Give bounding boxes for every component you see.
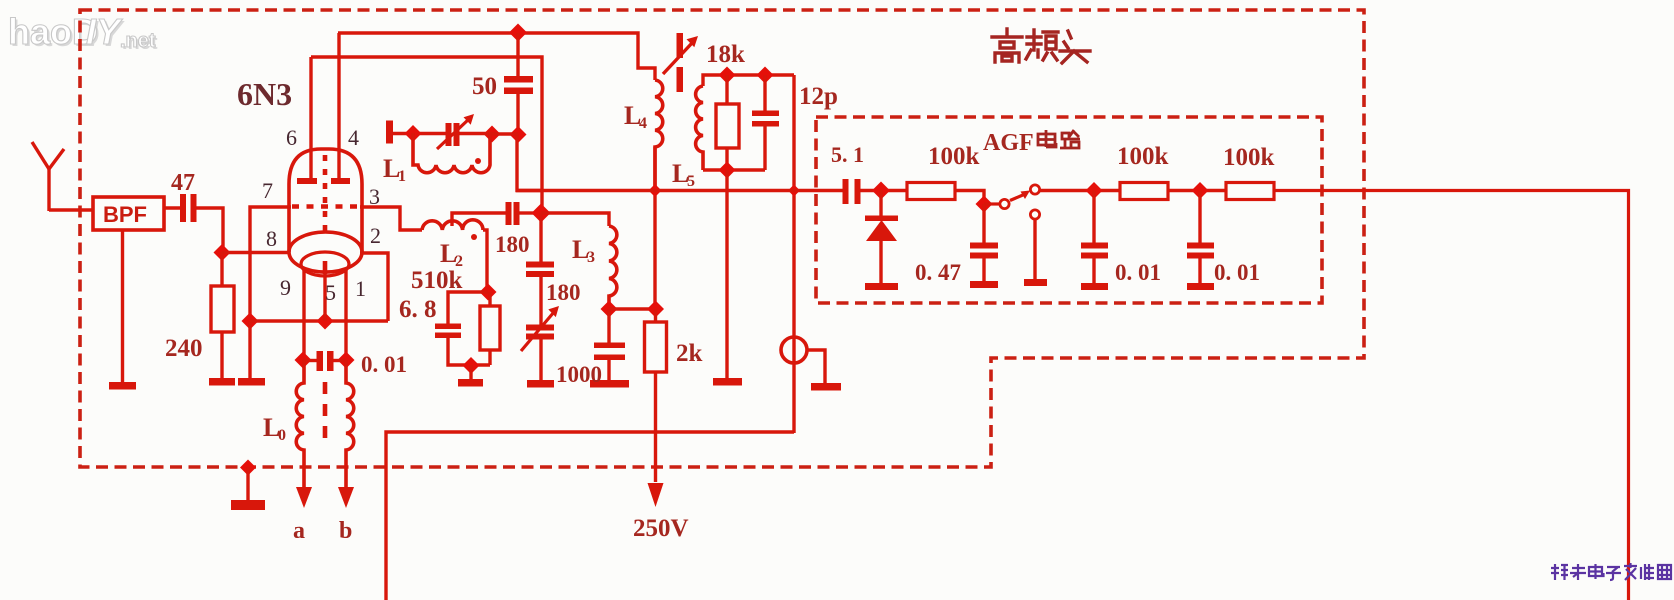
inductor L5 — [696, 86, 703, 170]
wire tank bottom rail — [703, 168, 765, 171]
AGF dashed box — [816, 117, 1322, 303]
node tank bottom — [719, 162, 736, 179]
watermark 精华电子文摘网 — [1551, 563, 1671, 580]
wire pin9 down — [302, 268, 305, 360]
wire BPF to C 47 — [164, 206, 181, 209]
wire node to cap 6.8 — [448, 292, 488, 324]
ground of 0.01 second — [1187, 283, 1214, 290]
svg-text:.net: .net — [120, 30, 156, 52]
ground of diode — [865, 283, 898, 290]
capacitor 6.8 — [435, 324, 461, 339]
svg-text:5: 5 — [325, 280, 336, 305]
ground of 510k — [458, 365, 483, 387]
inductor L0 primary — [296, 360, 304, 488]
svg-text:100k: 100k — [1117, 143, 1169, 170]
label AGF电路 — [983, 130, 1080, 156]
resistor 18k — [716, 75, 739, 170]
svg-text:6N3: 6N3 — [237, 76, 292, 112]
node top rail / 50 cap — [509, 24, 527, 42]
node L0 left — [295, 352, 312, 369]
node switch common — [976, 196, 993, 213]
svg-text:3: 3 — [369, 184, 380, 209]
wire varcap to L1 right node — [460, 132, 493, 135]
L4 adjustable core bar — [677, 33, 684, 92]
wire res2 to node3 — [1168, 189, 1226, 192]
wire node down to main line — [517, 134, 541, 191]
capacitor 180 variable — [521, 277, 559, 351]
label 高频头 — [992, 29, 1090, 63]
node L0 right — [338, 352, 355, 369]
node pin7/ground rail — [242, 313, 259, 330]
svg-text:AGF: AGF — [983, 130, 1034, 156]
wire node to L3 — [541, 213, 609, 226]
node second 0.01 — [1192, 182, 1209, 199]
node pin5 on rail — [317, 313, 334, 330]
L1 left terminal bar — [386, 121, 393, 144]
svg-text:5. 1: 5. 1 — [831, 142, 864, 167]
svg-text:6. 8: 6. 8 — [399, 296, 437, 323]
resistor 100k second — [1120, 183, 1168, 200]
resistor 100k first — [907, 183, 955, 200]
wire C47 to grid node — [196, 208, 223, 252]
ground of 240 — [209, 378, 235, 386]
inductor L3 — [609, 226, 617, 309]
wire cap to diode node — [860, 189, 907, 192]
wire L4 bottom through main line to node — [653, 147, 656, 310]
node 510k top — [480, 284, 497, 301]
svg-text:100k: 100k — [928, 143, 980, 170]
feedthrough circle — [781, 337, 807, 363]
resistor 2k — [645, 309, 667, 482]
inductor L2 — [422, 220, 483, 230]
svg-text:1: 1 — [355, 276, 366, 301]
svg-text:250V: 250V — [633, 515, 689, 542]
arrow 250V — [648, 483, 664, 507]
ground of tank — [713, 378, 742, 386]
svg-text:7: 7 — [262, 178, 273, 203]
svg-text:4: 4 — [639, 115, 647, 132]
capacitor 0.01 between a b — [303, 351, 346, 371]
node 50/L1 junction — [510, 126, 527, 143]
ground of grid rail — [238, 378, 265, 386]
node 2k top — [647, 301, 664, 318]
label L1 — [383, 154, 406, 185]
node L4 main line — [649, 184, 662, 197]
node diode — [872, 182, 890, 200]
svg-text:haoD: haoD — [8, 11, 98, 52]
capacitor 12p — [752, 75, 779, 170]
svg-text:6: 6 — [286, 125, 297, 150]
svg-text:b: b — [339, 518, 352, 544]
capacitor 180 series — [506, 202, 520, 225]
wire top rail from pin4 — [338, 33, 655, 80]
svg-text:4: 4 — [348, 125, 359, 150]
svg-text:BPF: BPF — [103, 202, 147, 227]
svg-text:9: 9 — [280, 275, 291, 300]
wire L2 right end down — [483, 230, 487, 292]
label L2 — [440, 239, 463, 270]
node L1 left — [405, 125, 422, 142]
svg-text:0. 01: 0. 01 — [361, 352, 407, 377]
wire L3 node to 2k node — [609, 307, 656, 310]
node A (grid node) — [214, 244, 231, 261]
wire tank node to ground — [725, 170, 728, 379]
ground of BPF — [109, 382, 136, 390]
L4 core arrow — [663, 36, 698, 74]
capacitor 47 — [180, 194, 197, 222]
svg-text:18k: 18k — [706, 41, 745, 68]
wire pin6 to grid line y57 — [311, 57, 542, 213]
ground of 1000 — [590, 380, 629, 388]
node tank top left — [719, 67, 736, 84]
wire L5 tank top rail — [703, 75, 794, 86]
wire L1 top — [393, 132, 446, 135]
wire pin2 right side — [360, 253, 388, 321]
resistor 240 — [211, 252, 234, 379]
node mixer grid — [532, 204, 551, 223]
L2 winding dot — [471, 234, 477, 240]
diode — [865, 190, 898, 284]
tube anode bar right (pin 4) — [331, 33, 350, 184]
wire cathode rail y321 — [250, 319, 388, 322]
wire BPF bottom to ground — [121, 230, 124, 383]
ground of 180 chain — [527, 339, 554, 388]
wire output return y432 — [386, 432, 794, 600]
label L4 — [624, 101, 647, 132]
wire AGF output to right edge and down — [1274, 191, 1629, 600]
ground of circle tap — [811, 383, 841, 391]
resistor 100k third — [1226, 183, 1274, 200]
capacitor 5.1 — [843, 179, 861, 204]
wire pin1 down — [344, 268, 347, 360]
arrow b — [338, 487, 354, 508]
wire node to tube pin 8 — [222, 251, 290, 254]
inductor L1 — [413, 133, 490, 173]
inductor L0 secondary — [346, 360, 354, 488]
svg-text:0. 01: 0. 01 — [1214, 260, 1260, 285]
arrow a — [296, 487, 312, 508]
wire node down to ground — [248, 321, 251, 379]
tube anode bar left (pin 6) — [297, 57, 317, 184]
tube grid dashed vertical — [323, 155, 328, 234]
ground of switch — [1024, 279, 1047, 286]
svg-text:1000: 1000 — [556, 362, 602, 387]
svg-text:12p: 12p — [799, 83, 838, 110]
svg-text:0. 01: 0. 01 — [1115, 260, 1161, 285]
svg-text:0: 0 — [278, 427, 286, 444]
svg-text:47: 47 — [171, 170, 195, 196]
ground below border node — [231, 467, 265, 510]
capacitor 1000 — [594, 309, 625, 381]
switch SPDT — [984, 185, 1040, 219]
resistor 510k — [471, 292, 500, 365]
capacitor 0.01 first — [1081, 191, 1108, 285]
wire switch to node2 — [1040, 189, 1120, 192]
svg-text:8: 8 — [266, 226, 277, 251]
node 510k bottom — [463, 357, 480, 374]
wire tank rail down to output line — [792, 75, 795, 433]
label L5 — [672, 159, 695, 190]
capacitor 50 — [504, 33, 533, 134]
svg-text:5: 5 — [687, 173, 695, 190]
wire between L1 node and 50 node — [492, 132, 518, 135]
svg-text:180: 180 — [495, 232, 530, 257]
svg-text:510k: 510k — [411, 267, 463, 294]
wire pin5 to rail — [323, 274, 326, 321]
antenna — [32, 142, 64, 211]
wire cap to node — [519, 211, 535, 214]
wire antenna to BPF — [49, 208, 93, 211]
tube bottom outer ellipse — [289, 232, 362, 272]
wire circle tap to ground — [807, 350, 825, 384]
BPF box — [93, 197, 164, 230]
wire main line left section — [516, 189, 843, 192]
tube 6N3 envelope — [289, 149, 362, 252]
node L3 bottom — [601, 301, 618, 318]
node tank top right — [757, 67, 774, 84]
wire resistor to switch — [955, 191, 984, 205]
node first 0.01 — [1086, 182, 1103, 199]
wire pin7 from tube to left and down — [250, 207, 291, 321]
watermark haoDIY.net — [8, 11, 158, 54]
wire cap to bottom node — [448, 338, 471, 365]
inductor L4 — [655, 80, 663, 190]
ground of 0.47 — [970, 281, 998, 288]
svg-text:180: 180 — [546, 280, 581, 305]
label L0 — [263, 413, 286, 444]
svg-text:50: 50 — [472, 73, 497, 100]
tube cathode stub pin 5 — [323, 261, 328, 274]
wire pin3 to L2 — [360, 207, 422, 230]
svg-text:240: 240 — [165, 335, 203, 362]
capacitor 0.47 — [970, 204, 998, 282]
outer dashed border 高频头 box — [80, 10, 1364, 467]
L0 core dashed — [323, 382, 328, 448]
ground of 0.01 first — [1081, 283, 1108, 290]
node main line x794 — [788, 185, 800, 197]
variable capacitor of L1 tank — [437, 114, 474, 149]
svg-text:3: 3 — [587, 249, 595, 266]
node L1 right — [484, 126, 501, 143]
L1 winding dot — [475, 158, 481, 164]
svg-text:2: 2 — [370, 223, 381, 248]
node on bottom border — [240, 460, 256, 476]
tube base inner ellipse — [301, 252, 349, 276]
svg-text:2k: 2k — [676, 340, 703, 367]
capacitor 180 fixed shunt — [526, 213, 554, 277]
wire lower throw to ground — [1033, 219, 1036, 280]
svg-text:IY: IY — [86, 11, 123, 52]
svg-text:0. 47: 0. 47 — [915, 260, 961, 285]
capacitor 0.01 second — [1187, 191, 1214, 285]
svg-text:a: a — [293, 518, 305, 544]
label L3 — [572, 235, 595, 266]
wire L2 tap to series cap 180 — [452, 213, 506, 226]
tube grid dashed horizontal — [292, 204, 359, 209]
svg-text:100k: 100k — [1223, 144, 1275, 171]
svg-text:1: 1 — [398, 168, 406, 185]
